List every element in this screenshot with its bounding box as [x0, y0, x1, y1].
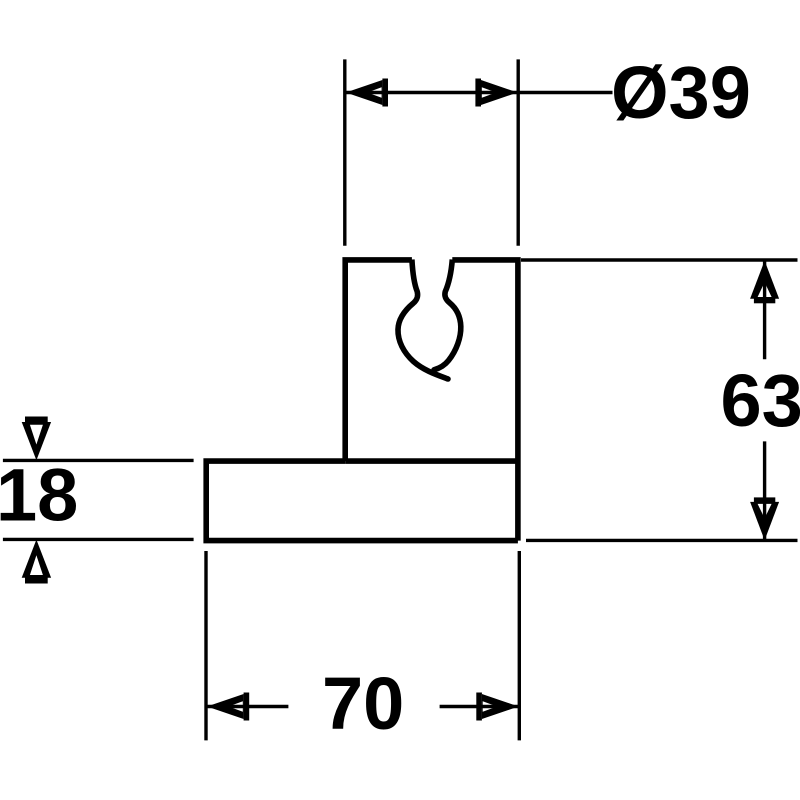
hole left arc tail end cap [445, 376, 451, 382]
extension line diameter right [517, 59, 520, 245]
bracket upright top-right edge and right edge [452, 260, 518, 541]
arrowhead thickness up [22, 540, 51, 584]
bracket upright left edge and top-left edge [345, 260, 412, 461]
svg-text:63: 63 [721, 359, 800, 442]
arrowhead height top [750, 261, 779, 304]
arrowhead width right [476, 693, 518, 721]
dimension line height upper segment [763, 261, 766, 359]
extension line height bottom [526, 539, 798, 542]
svg-text:18: 18 [0, 454, 78, 537]
arrowhead thickness down [22, 417, 51, 461]
hole right arc end cap [431, 367, 437, 373]
dimension line height lower segment [763, 441, 766, 539]
base plate top edge under upright [345, 458, 518, 464]
dimension line diameter with leader [346, 91, 613, 94]
extension line width left [204, 551, 207, 740]
dimension line width left segment [207, 705, 288, 708]
arrowhead height bottom [750, 497, 779, 540]
base plate left portion outline [206, 461, 518, 540]
arrowhead diameter left [346, 79, 388, 107]
arrowhead diameter right [475, 79, 517, 107]
svg-text:Ø39: Ø39 [611, 51, 751, 134]
extension line diameter left [343, 59, 346, 245]
holder slot right wall and hole right arc [434, 260, 461, 370]
extension line thickness top [3, 459, 194, 462]
holder slot left wall and hole left arc [398, 260, 448, 380]
svg-text:70: 70 [322, 662, 404, 745]
dimension line width right segment [440, 705, 519, 708]
extension line width right [518, 551, 521, 740]
extension line thickness bottom [3, 538, 194, 541]
arrowhead width left [207, 693, 249, 721]
extension line height top [521, 258, 798, 261]
